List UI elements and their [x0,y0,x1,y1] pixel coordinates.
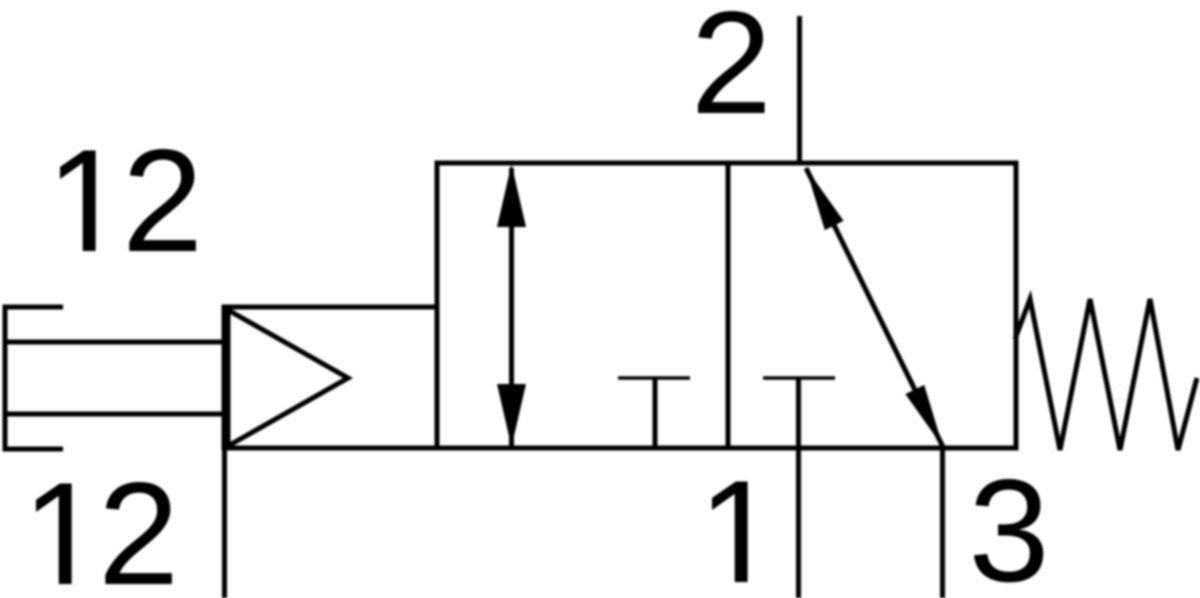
label 3 [974,479,1043,582]
wire: pilot channel lower [5,412,224,417]
flow path arrow, left position ports 1-2 [497,164,526,447]
pneumatic pilot actuator box [224,307,437,448]
label 2 [698,11,765,113]
wire: pilot channel upper [5,340,224,345]
label 1 [712,482,748,582]
flow path arrow, right position ports 2-3 [806,168,943,447]
wire: port 3 line [940,448,945,598]
pilot triangle symbol [228,310,348,446]
label 12 bottom [36,482,172,584]
wire: port 2 line [797,16,802,163]
wire: port 12 line [222,448,227,598]
label 12 top [60,149,196,251]
valve body outline [437,163,1016,448]
wire: port 1 line [796,448,801,598]
return spring [1015,299,1197,450]
pilot port 12 connector bracket [5,307,63,449]
valve position divider [726,163,731,448]
blocked port symbol, right position port 1 [763,378,835,448]
blocked port symbol, left position port 3 [618,378,690,448]
